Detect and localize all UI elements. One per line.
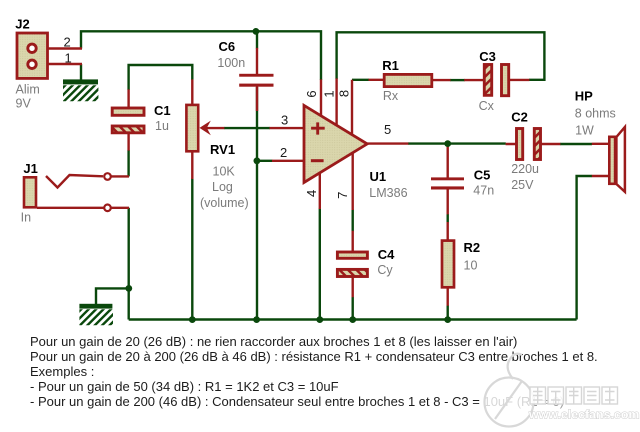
svg-text:10: 10	[464, 259, 478, 273]
wire C4 red leads	[352, 231, 354, 297]
wire C6 bottom / pin2 node vertical to ground bus	[256, 87, 258, 320]
svg-text:In: In	[21, 211, 31, 225]
svg-text:J1: J1	[23, 161, 37, 176]
wire RV1 wiper red shaft	[207, 127, 225, 129]
wire U1 pin 3 red lead	[270, 127, 305, 129]
ground symbol at J2	[48, 79, 118, 102]
junction node bus/RV1	[189, 316, 196, 323]
svg-text:www.elecfans.com: www.elecfans.com	[528, 408, 639, 422]
svg-text:Cy: Cy	[377, 263, 393, 277]
svg-text:3: 3	[281, 112, 288, 127]
junction node J1 sleeve/ground stub	[125, 285, 132, 292]
svg-text:1u: 1u	[155, 119, 169, 133]
capacitor C3 (Cx)	[484, 65, 508, 96]
svg-text:Pour un gain de 20 (26 dB) : n: Pour un gain de 20 (26 dB) : ne rien rac…	[30, 334, 517, 349]
connector J2	[17, 33, 48, 78]
svg-text:Alim: Alim	[16, 83, 40, 97]
wire U1 pin 1 to top-right rail to C3	[337, 32, 545, 80]
junction node rail/C6	[253, 28, 260, 35]
svg-text:U1: U1	[370, 169, 387, 184]
svg-text:9V: 9V	[16, 97, 32, 111]
wire U1 pin 7 to C4	[352, 210, 354, 232]
svg-text:C1: C1	[154, 103, 171, 118]
wire U1 pin 8 red lead	[351, 80, 353, 136]
svg-text:1: 1	[321, 90, 336, 97]
svg-text:- Pour un gain de 50 (34 dB) :: - Pour un gain de 50 (34 dB) : R1 = 1K2 …	[30, 379, 339, 394]
wire J1 sleeve to ground bus	[127, 208, 129, 320]
ground symbol at J1	[64, 304, 127, 327]
connector J1 audio jack	[24, 173, 111, 211]
wire C2 red leads	[506, 143, 561, 145]
svg-text:25V: 25V	[511, 178, 534, 192]
svg-text:2: 2	[280, 145, 287, 160]
wire U1 output pin 5 to C2	[408, 142, 506, 144]
watermark logo circle	[485, 354, 534, 427]
wire U1 pin 6 red lead	[320, 79, 322, 118]
capacitor C5 47n	[431, 177, 464, 189]
svg-text:5: 5	[384, 122, 391, 137]
svg-text:(volume): (volume)	[200, 196, 249, 210]
wire HP red leads	[592, 144, 609, 176]
wire ground bus	[129, 318, 577, 320]
svg-text:2: 2	[64, 35, 71, 50]
capacitor C6 100n	[239, 74, 273, 87]
svg-text:6: 6	[304, 90, 319, 97]
wire node to U1 pin 2	[257, 160, 272, 162]
svg-text:RV1: RV1	[210, 142, 235, 157]
wire C1 top to RV1 top	[129, 65, 193, 90]
potentiometer RV1	[186, 105, 210, 151]
svg-text:J2: J2	[15, 17, 29, 32]
junction node pin2/C6 vertical	[254, 157, 261, 164]
wire C2 to HP	[560, 143, 592, 145]
svg-text:8 ohms: 8 ohms	[575, 107, 616, 121]
wire C6 red leads	[256, 48, 258, 111]
wire U1 pin 4 to ground bus	[319, 209, 321, 320]
wire U1 pin 8 to R1	[352, 79, 369, 81]
svg-text:Log: Log	[212, 180, 233, 194]
wire ground stub at J1	[96, 288, 129, 304]
wire C3 red leads	[464, 79, 529, 82]
wire J1 sleeve red lead	[37, 207, 129, 209]
wire C6 top lead to rail	[256, 31, 258, 48]
capacitor C2 (220u 25V polarized)	[517, 129, 541, 160]
svg-text:C4: C4	[378, 247, 395, 262]
wire U1 pin 5 output red lead	[366, 142, 408, 144]
wire HP return to ground bus	[577, 176, 592, 320]
wire R1 red leads	[369, 79, 451, 82]
junction node output/C5	[444, 140, 451, 147]
wire R2 bottom to ground bus	[447, 305, 449, 319]
capacitor C1 (polarized 1u)	[112, 108, 144, 133]
wire +9V rail from J2 pin 2 to U1 pin 6	[81, 31, 321, 80]
svg-text:C5: C5	[474, 168, 491, 183]
svg-text:220u: 220u	[511, 162, 539, 176]
resistor R2	[442, 241, 454, 288]
svg-text:C2: C2	[511, 110, 528, 125]
junction node bus/C4	[349, 316, 356, 323]
wire U1 pin 7 red lead	[352, 151, 354, 210]
wire U1 pin 1 red lead	[335, 78, 337, 127]
wire R1 to C3	[450, 79, 465, 81]
wire C5 to R2	[447, 214, 449, 223]
svg-text:1: 1	[65, 51, 72, 66]
wire R2 red leads	[447, 222, 449, 306]
junction node bus/pin4	[316, 316, 323, 323]
wire U1 pin 4 red lead	[319, 171, 321, 209]
watermark chinese characters	[530, 387, 618, 404]
svg-text:C6: C6	[219, 39, 236, 54]
svg-text:8: 8	[336, 90, 351, 97]
svg-text:LM386: LM386	[369, 186, 407, 200]
wire J2 pin 1 red lead	[36, 63, 82, 65]
capacitor C4 (Cy, polarized)	[337, 252, 367, 277]
svg-text:R1: R1	[382, 58, 399, 73]
svg-text:4: 4	[304, 190, 319, 197]
svg-text:R2: R2	[464, 240, 481, 255]
wire J2 pin 2 red lead	[36, 47, 82, 49]
wire U1 pin 2 red lead	[272, 160, 304, 162]
svg-text:10K: 10K	[213, 165, 236, 179]
svg-text:HP: HP	[575, 89, 593, 104]
wire C5 red leads	[447, 143, 449, 215]
wire J1 tip red lead	[111, 175, 129, 177]
wire J2 pin 1 to ground	[80, 64, 82, 80]
op-amp U1 LM386	[304, 105, 367, 182]
wire C1 bottom to J1 tip	[127, 150, 129, 176]
wire RV1 red leads	[191, 79, 193, 179]
svg-text:Exemples :: Exemples :	[30, 364, 94, 379]
wire C1 red leads	[127, 89, 129, 150]
svg-text:1W: 1W	[575, 123, 594, 137]
svg-text:C3: C3	[479, 49, 496, 64]
svg-text:Cx: Cx	[479, 99, 495, 113]
resistor R1	[384, 74, 432, 86]
wire RV1 bottom to ground bus	[191, 179, 193, 320]
watermark background veil	[483, 373, 640, 426]
svg-text:7: 7	[335, 192, 350, 199]
svg-text:100n: 100n	[217, 56, 245, 70]
wire RV1 wiper to U1 pin 3	[224, 127, 270, 129]
svg-text:47n: 47n	[473, 184, 494, 198]
wire C4 bottom to ground bus	[352, 297, 354, 320]
junction node bus/R2	[444, 316, 451, 323]
junction node bus/C6 vertical	[253, 316, 260, 323]
speaker HP	[609, 127, 625, 192]
svg-text:Rx: Rx	[383, 89, 399, 103]
